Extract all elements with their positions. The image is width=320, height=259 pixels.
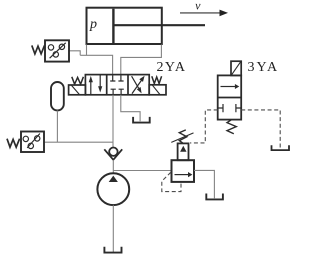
- 3YA open position arrow: [221, 84, 240, 89]
- pressure switch S2: [7, 132, 44, 153]
- pipe B (rod end line): [121, 45, 162, 75]
- pump suction line: [112, 205, 114, 252]
- 3YA return spring: [227, 120, 236, 134]
- center position blocked ports: [110, 76, 124, 95]
- svg-text:2YA: 2YA: [157, 60, 187, 75]
- right return spring: [152, 76, 162, 83]
- svg-text:p: p: [89, 17, 97, 32]
- pump: [97, 173, 129, 205]
- 4/3 directional valve 2YA body: [85, 75, 149, 95]
- junction line (accumulator / S2 tap): [44, 141, 113, 143]
- dashed drain line 3YA to tank: [241, 110, 280, 149]
- relief valve pilot section: [178, 143, 189, 160]
- wire cylinder cap port: [86, 45, 88, 56]
- 3YA blocked position: [218, 104, 242, 112]
- velocity arrow: [180, 10, 228, 17]
- svg-text:3YA: 3YA: [248, 60, 280, 75]
- line pump to relief valve: [113, 170, 171, 172]
- tank under 3YA drain: [272, 145, 290, 150]
- right solenoid: [149, 85, 166, 95]
- right position crossed arrows: [132, 76, 145, 94]
- pressure switch S1: [32, 40, 69, 61]
- 2/2 pilot valve 3YA body: [218, 75, 242, 119]
- pump outlet line: [112, 160, 114, 173]
- svg-text:v: v: [195, 0, 201, 12]
- piston: [112, 9, 114, 43]
- relief valve outlet line: [194, 170, 214, 198]
- relief valve main body: [172, 160, 195, 182]
- tank under valve T port: [133, 117, 150, 123]
- left return spring: [72, 77, 84, 84]
- piston rod: [115, 24, 206, 26]
- 2/2 pilot valve 3YA solenoid: [231, 61, 241, 75]
- left solenoid: [69, 85, 86, 95]
- tank under relief valve: [206, 194, 223, 200]
- relief valve adjustable spring: [171, 130, 193, 143]
- check valve: [104, 148, 122, 160]
- cylinder body: [87, 8, 162, 44]
- tank under pump: [104, 247, 121, 253]
- relief valve pilot sensing (dashed): [162, 172, 181, 191]
- pipe A (cap end line): [80, 55, 112, 74]
- pipe T to tank: [121, 95, 140, 122]
- pipe P (valve to check valve): [112, 95, 114, 148]
- dashed pilot line 3YA to relief valve: [190, 110, 218, 143]
- accumulator: [51, 82, 64, 142]
- wire pressure switch S1 to pipe A: [69, 51, 80, 56]
- left position arrows: [89, 75, 103, 95]
